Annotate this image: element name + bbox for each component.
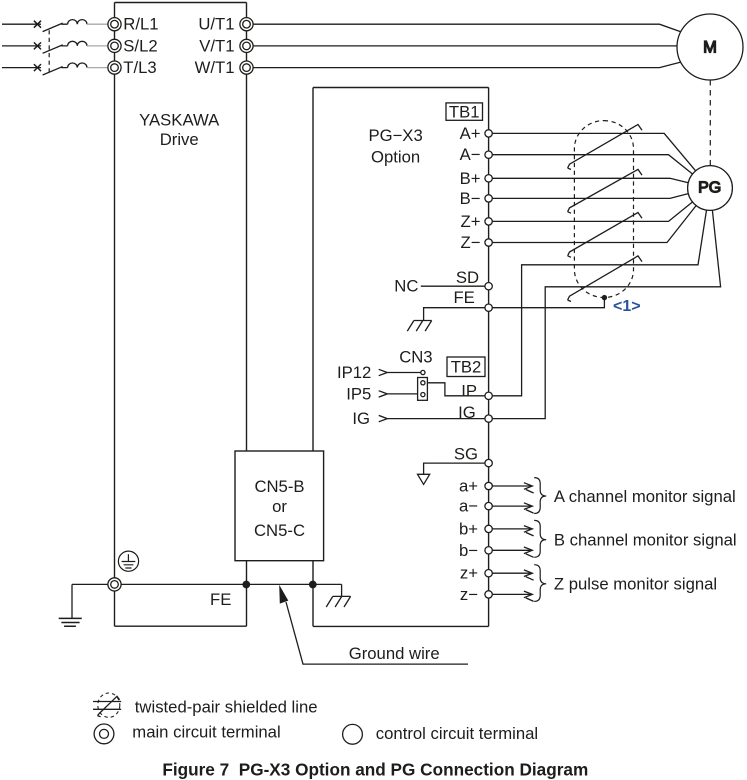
terminal IP — [485, 392, 492, 399]
wire inductor to R/L1 — [87, 23, 108, 25]
monitor wire b- — [492, 549, 531, 551]
switch linkage dashed — [48, 30, 50, 72]
shield drain junction dot — [602, 295, 607, 300]
svg-text:<1>: <1> — [613, 298, 641, 315]
terminal A- — [485, 151, 492, 158]
svg-text:IG: IG — [352, 409, 370, 428]
encoder PG — [688, 166, 733, 211]
wire input phase T line — [2, 67, 41, 69]
switch blade phase S — [43, 45, 68, 53]
motor output wire W — [253, 62, 681, 68]
svg-text:twisted-pair shielded line: twisted-pair shielded line — [135, 697, 318, 716]
protective earth symbol — [118, 551, 138, 571]
YASKAWA drive enclosure — [115, 3, 247, 627]
svg-text:PG−X3: PG−X3 — [368, 126, 422, 145]
terminal V/T1 — [240, 39, 253, 52]
twist symbol pair B — [568, 169, 642, 213]
terminal Z- — [485, 239, 492, 246]
wire input phase S line — [2, 45, 41, 47]
arrow z- — [524, 591, 534, 601]
svg-text:V/T1: V/T1 — [199, 36, 234, 55]
svg-text:NC: NC — [394, 277, 418, 296]
svg-text:z−: z− — [460, 585, 478, 604]
svg-text:main circuit terminal: main circuit terminal — [132, 723, 280, 742]
hatched ground at FE — [407, 321, 431, 332]
wire IP12 — [387, 372, 420, 374]
svg-text:A−: A− — [460, 145, 481, 164]
svg-text:Drive: Drive — [160, 130, 199, 149]
svg-text:TB2: TB2 — [451, 358, 482, 377]
open arrow SG — [418, 474, 430, 484]
wire input phase R line — [2, 23, 41, 25]
svg-text:SD: SD — [456, 268, 479, 287]
svg-text:Option: Option — [371, 147, 420, 166]
svg-text:IP: IP — [461, 381, 477, 400]
brace A channel — [534, 478, 546, 514]
terminal A+ — [485, 130, 492, 137]
fuse X phase T — [34, 64, 41, 71]
svg-text:PG: PG — [698, 180, 721, 197]
wire IG to PG — [492, 210, 720, 418]
legend twisted-pair icon — [93, 693, 121, 717]
legend control circuit terminal icon — [343, 724, 363, 744]
main circuit terminal FE (double circle) — [108, 578, 121, 591]
svg-text:B+: B+ — [460, 169, 481, 188]
svg-text:IP5: IP5 — [346, 385, 371, 404]
terminal B+ — [485, 175, 492, 182]
arrow z+ — [524, 570, 534, 580]
monitor wire a- — [492, 505, 531, 507]
svg-text:IG: IG — [458, 403, 476, 422]
wire FE to ground — [424, 308, 485, 321]
svg-text:S/L2: S/L2 — [123, 36, 157, 55]
junction dot CN5 right — [309, 581, 317, 589]
terminal b+ — [485, 525, 492, 532]
monitor wire z- — [492, 593, 531, 595]
switch blade phase R — [43, 23, 68, 31]
svg-text:SG: SG — [454, 445, 478, 464]
terminal z- — [485, 591, 492, 598]
terminal SG — [485, 459, 492, 466]
wire SG to arrow — [424, 463, 485, 474]
svg-text:M: M — [703, 39, 717, 57]
svg-text:Z pulse monitor signal: Z pulse monitor signal — [554, 575, 717, 594]
terminal T/L3 — [108, 61, 121, 74]
wire inductor to S/L2 — [87, 45, 108, 47]
arrow a- — [524, 503, 534, 513]
junction dot CN5 left — [242, 581, 250, 589]
svg-text:FE: FE — [453, 288, 474, 307]
wire to earth ground left — [71, 584, 73, 618]
arrow a+ — [524, 483, 534, 493]
svg-text:CN5-C: CN5-C — [254, 521, 305, 540]
svg-text:A channel monitor signal: A channel monitor signal — [554, 487, 736, 506]
svg-text:a+: a+ — [459, 477, 478, 496]
svg-text:Ground wire: Ground wire — [349, 644, 440, 663]
brace Z pulse — [534, 565, 546, 602]
arrow IP5 — [379, 391, 388, 397]
twist symbol pair Z — [568, 213, 642, 258]
terminal FE — [485, 304, 492, 311]
inductor L phase R — [68, 20, 87, 25]
arrow IG — [379, 415, 388, 421]
twist symbol pair IP/IG — [568, 256, 642, 302]
twist symbol pair A — [568, 125, 642, 170]
svg-text:T/L3: T/L3 — [123, 58, 156, 77]
fuse X phase S — [34, 42, 41, 49]
monitor wire b+ — [492, 528, 531, 530]
svg-text:b−: b− — [459, 541, 478, 560]
CN3 pin upper circle — [421, 381, 425, 385]
wire CN3 jumper to IP — [427, 383, 485, 396]
terminal W/T1 — [240, 61, 253, 74]
terminal IG — [485, 415, 492, 422]
terminal S/L2 — [108, 39, 121, 52]
svg-text:IP12: IP12 — [337, 363, 371, 382]
wire A+ to PG — [492, 133, 695, 170]
svg-text:A+: A+ — [460, 124, 481, 143]
TB1 label box — [446, 103, 483, 120]
arrow b+ — [524, 526, 534, 536]
svg-text:Figure 7 PG-X3 Option and PG: Figure 7 PG-X3 Option and PG Connection … — [162, 759, 588, 779]
svg-text:U/T1: U/T1 — [198, 15, 234, 34]
svg-text:or: or — [272, 497, 287, 516]
shield dashed stadium — [574, 121, 633, 298]
terminal U/T1 — [240, 18, 253, 31]
svg-text:YASKAWA: YASKAWA — [139, 110, 220, 129]
svg-text:B channel monitor signal: B channel monitor signal — [554, 530, 737, 549]
legend main circuit terminal icon — [94, 724, 114, 744]
motor output wire U — [253, 24, 681, 32]
svg-text:Z−: Z− — [461, 233, 481, 252]
wire FE shield drain — [492, 299, 604, 308]
switch blade phase T — [43, 67, 68, 75]
hatched ground right of CN5 — [326, 584, 350, 607]
wire Z+ to PG — [492, 202, 692, 222]
motor M — [677, 14, 743, 80]
svg-text:FE: FE — [210, 590, 231, 609]
ground wire pointer — [286, 602, 468, 664]
terminal a+ — [485, 482, 492, 489]
CN3 pin IP12 circle — [421, 370, 425, 374]
arrow IP12 — [379, 369, 388, 375]
svg-text:Z+: Z+ — [461, 212, 481, 231]
inductor L phase S — [68, 41, 87, 46]
earth ground symbol — [59, 618, 82, 626]
motor output wire V — [253, 45, 677, 47]
TB2 label box — [447, 357, 485, 377]
svg-text:CN5-B: CN5-B — [254, 477, 304, 496]
monitor wire z+ — [492, 572, 531, 574]
wire IG input — [387, 418, 485, 420]
svg-text:W/T1: W/T1 — [195, 58, 235, 77]
svg-text:R/L1: R/L1 — [123, 15, 158, 34]
FE bus wire — [72, 583, 342, 585]
shaft coupling dashed M to PG — [709, 80, 711, 165]
CN3 pin lower circle — [421, 393, 425, 397]
fuse X phase R — [34, 21, 41, 28]
terminal B- — [485, 195, 492, 202]
svg-text:B−: B− — [460, 189, 481, 208]
wire Z- to PG — [492, 206, 696, 243]
wire NC to SD — [421, 285, 485, 287]
CN3 jumper box — [418, 378, 428, 401]
terminal z+ — [485, 570, 492, 577]
terminal R/L1 — [108, 18, 121, 31]
wire inductor to T/L3 — [87, 67, 108, 69]
wire IP5 — [387, 393, 417, 395]
monitor wire a+ — [492, 485, 531, 487]
wire B+ to PG — [492, 178, 688, 182]
svg-text:CN3: CN3 — [399, 348, 432, 367]
wire IP to PG — [492, 210, 706, 396]
svg-text:z+: z+ — [460, 564, 478, 583]
brace B channel — [534, 520, 546, 557]
terminal SD — [485, 283, 492, 290]
terminal b- — [485, 547, 492, 554]
wire A- to PG — [492, 155, 692, 174]
CN5-B box — [235, 451, 324, 561]
svg-text:TB1: TB1 — [449, 103, 480, 122]
terminal Z+ — [485, 218, 492, 225]
terminal a- — [485, 502, 492, 509]
PG-X3 option enclosure — [313, 88, 489, 627]
svg-text:b+: b+ — [459, 519, 478, 538]
arrow b- — [524, 547, 534, 557]
wire B- to PG — [492, 194, 688, 199]
svg-text:a−: a− — [459, 497, 478, 516]
svg-text:control circuit terminal: control circuit terminal — [376, 724, 538, 743]
inductor L phase T — [68, 63, 87, 68]
